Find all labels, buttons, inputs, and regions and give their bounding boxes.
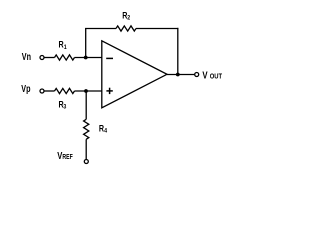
wire R4 to VREF terminal bbox=[85, 139, 87, 159]
svg-text:V: V bbox=[202, 70, 208, 81]
wire feedback top right horizontal bbox=[136, 28, 178, 30]
svg-text:REF: REF bbox=[62, 154, 73, 162]
svg-text:1: 1 bbox=[64, 43, 67, 51]
label VOUT subscript bbox=[210, 73, 222, 81]
label Vp bbox=[21, 83, 30, 94]
terminal Vn bbox=[40, 56, 44, 60]
node output junction bbox=[176, 73, 180, 77]
wire R3 to op-amp non-inverting input bbox=[75, 90, 102, 92]
svg-text:V: V bbox=[57, 150, 62, 161]
terminal VOUT bbox=[195, 73, 199, 77]
wire feedback top left horizontal bbox=[85, 28, 116, 30]
resistor R1 bbox=[55, 55, 75, 60]
svg-text:Vp: Vp bbox=[21, 83, 30, 94]
node inverting input junction bbox=[84, 56, 88, 60]
op-amp non-inverting input marker + bbox=[106, 88, 112, 94]
label R3 bbox=[59, 100, 64, 110]
label R4 subscript bbox=[104, 127, 107, 135]
label R1 subscript bbox=[64, 43, 67, 51]
label VOUT bbox=[202, 70, 208, 81]
wire junction to R4 bbox=[85, 91, 87, 119]
wire feedback left vertical bbox=[85, 29, 87, 58]
label R2 bbox=[122, 11, 127, 21]
svg-text:Vn: Vn bbox=[22, 51, 31, 62]
wire R1 to op-amp inverting input bbox=[75, 57, 102, 59]
svg-text:R: R bbox=[59, 40, 64, 50]
op-amp U1 bbox=[102, 41, 167, 108]
svg-text:2: 2 bbox=[127, 14, 130, 22]
label R2 subscript bbox=[127, 14, 130, 22]
label R1 bbox=[59, 40, 64, 50]
label VREF subscript bbox=[62, 154, 73, 162]
node non-inverting input junction bbox=[84, 89, 88, 93]
resistor R4 bbox=[84, 119, 89, 139]
terminal VREF bbox=[84, 160, 88, 164]
label R3 subscript bbox=[63, 103, 66, 111]
wire op-amp output to VOUT terminal bbox=[167, 74, 194, 76]
terminal Vp bbox=[40, 89, 44, 93]
resistor R2 bbox=[116, 26, 136, 31]
wire Vp terminal to R3 bbox=[44, 90, 54, 92]
svg-text:4: 4 bbox=[104, 127, 107, 135]
wire feedback right vertical bbox=[177, 28, 179, 75]
svg-text:OUT: OUT bbox=[210, 73, 222, 81]
svg-text:3: 3 bbox=[63, 103, 66, 111]
op-amp inverting input marker - bbox=[106, 57, 113, 59]
label Vn bbox=[22, 51, 31, 62]
label R4 bbox=[99, 124, 104, 134]
label VREF bbox=[57, 150, 62, 161]
wire Vn terminal to R1 bbox=[44, 57, 54, 59]
resistor R3 bbox=[55, 88, 75, 93]
